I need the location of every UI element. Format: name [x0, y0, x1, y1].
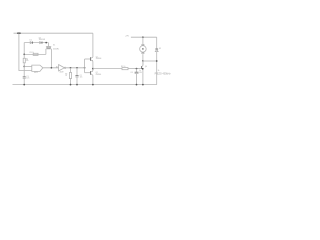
transistor Q1 2N3904: [90, 57, 92, 61]
node rail junctions: [23, 84, 25, 86]
svg-text:C6: C6: [130, 72, 132, 74]
capacitor C1 to ground rail: [23, 67, 25, 77]
wire crystal bottom-left lead to branch2: [45, 49, 47, 55]
node output junction: [92, 68, 94, 70]
wire base stub Q1: [85, 58, 91, 60]
wire base tie vertical: [84, 59, 86, 73]
node junction crystal/main: [51, 67, 53, 69]
node V+ junction on top rail: [17, 33, 20, 34]
wire base stub Q2: [85, 72, 91, 74]
wire branch2 horizontal: [24, 53, 46, 55]
svg-text:Q2: Q2: [96, 72, 98, 74]
node junction C2 branch: [76, 67, 78, 69]
wire inverter output: [66, 67, 85, 69]
svg-text:R5 10: R5 10: [121, 66, 125, 68]
node junction transducer feed: [142, 36, 144, 38]
svg-text:4011: 4011: [34, 72, 38, 74]
node junction R4 branch: [70, 67, 72, 69]
wire tap to zener: [143, 60, 157, 62]
svg-text:Q1: Q1: [96, 56, 98, 58]
svg-text:1k: 1k: [158, 70, 160, 72]
wire branch1 horizontal: [24, 42, 48, 44]
svg-text:10n: 10n: [26, 78, 29, 80]
diode D1: [30, 42, 32, 44]
svg-text:PIEZO 455kHz: PIEZO 455kHz: [155, 72, 172, 75]
svg-text:2N3906: 2N3906: [96, 74, 102, 76]
svg-text:Q4: Q4: [145, 66, 147, 68]
capacitor C3 to rail: [136, 69, 138, 72]
svg-text:1k: 1k: [65, 75, 67, 77]
wire crystal top lead: [47, 43, 49, 47]
svg-text:16V: 16V: [139, 72, 143, 74]
transistor Q2 2N3906: [90, 71, 92, 75]
gate U1A (AND-style box): [32, 65, 43, 71]
svg-text:4049: 4049: [60, 71, 64, 73]
svg-text:10n: 10n: [80, 77, 83, 79]
node junction branch1: [45, 42, 47, 44]
wire Q1 collector to top rail: [92, 33, 94, 57]
wire Q2 emitter to output node: [92, 69, 94, 71]
resistor R2 vertical: [23, 54, 25, 58]
svg-text:D3: D3: [159, 48, 161, 50]
transducer LS1 bottom chevrons: [142, 52, 145, 53]
svg-text:X1: X1: [53, 45, 55, 47]
resistor R3 on branch2: [33, 53, 38, 55]
node junction collector / zener tap: [142, 60, 144, 62]
node junction gate input A: [23, 66, 25, 68]
wire top rail: [14, 32, 93, 34]
diode D2: [40, 42, 42, 44]
wire Q3 emitter to rail: [142, 70, 144, 85]
svg-text:R3 1k: R3 1k: [30, 52, 34, 54]
wire crystal right lead down to main line: [50, 49, 52, 68]
wire right feed line: [131, 36, 157, 38]
wire gate input A: [24, 66, 32, 68]
transducer LS1 body: [140, 46, 147, 53]
svg-text:A2: A2: [56, 65, 58, 68]
wire output line right: [93, 68, 122, 70]
wire Q3 collector up: [142, 61, 144, 65]
capacitor C2 to rail: [76, 68, 78, 76]
svg-text:455kHz: 455kHz: [53, 49, 59, 51]
node junction zener bottom tap: [156, 60, 158, 62]
wire corner left of D1 down to branch2: [23, 43, 25, 55]
wire Q2 collector to bottom rail: [92, 75, 94, 84]
transistor Q3: [141, 66, 143, 69]
svg-text:1u: 1u: [139, 70, 141, 72]
node junction C3 branch: [136, 68, 138, 70]
wire bottom rail: [13, 84, 157, 86]
wire gate output to inverter: [43, 67, 59, 69]
node junction base tie: [84, 67, 86, 69]
node junction branch2 left: [23, 54, 25, 56]
diode D3 zener: [156, 37, 158, 48]
svg-text:2N3904: 2N3904: [96, 58, 102, 60]
resistor R5 on output line: [122, 68, 128, 70]
svg-text:+9V: +9V: [125, 35, 129, 37]
svg-text:D1: D1: [30, 39, 32, 41]
svg-text:47k: 47k: [26, 60, 29, 62]
wire transducer bottom lead: [142, 54, 144, 65]
wire Q1 emitter to output node: [92, 61, 94, 68]
wire transducer top lead: [142, 37, 144, 44]
inverter U1B: [59, 65, 65, 71]
resistor R4 to rail: [70, 68, 72, 73]
svg-text:1N4148: 1N4148: [39, 39, 45, 41]
crystal X1 455kHz: [46, 46, 51, 48]
transducer LS1 top chevrons: [142, 44, 145, 45]
wire left vertical from top rail to gate input B: [19, 33, 32, 70]
